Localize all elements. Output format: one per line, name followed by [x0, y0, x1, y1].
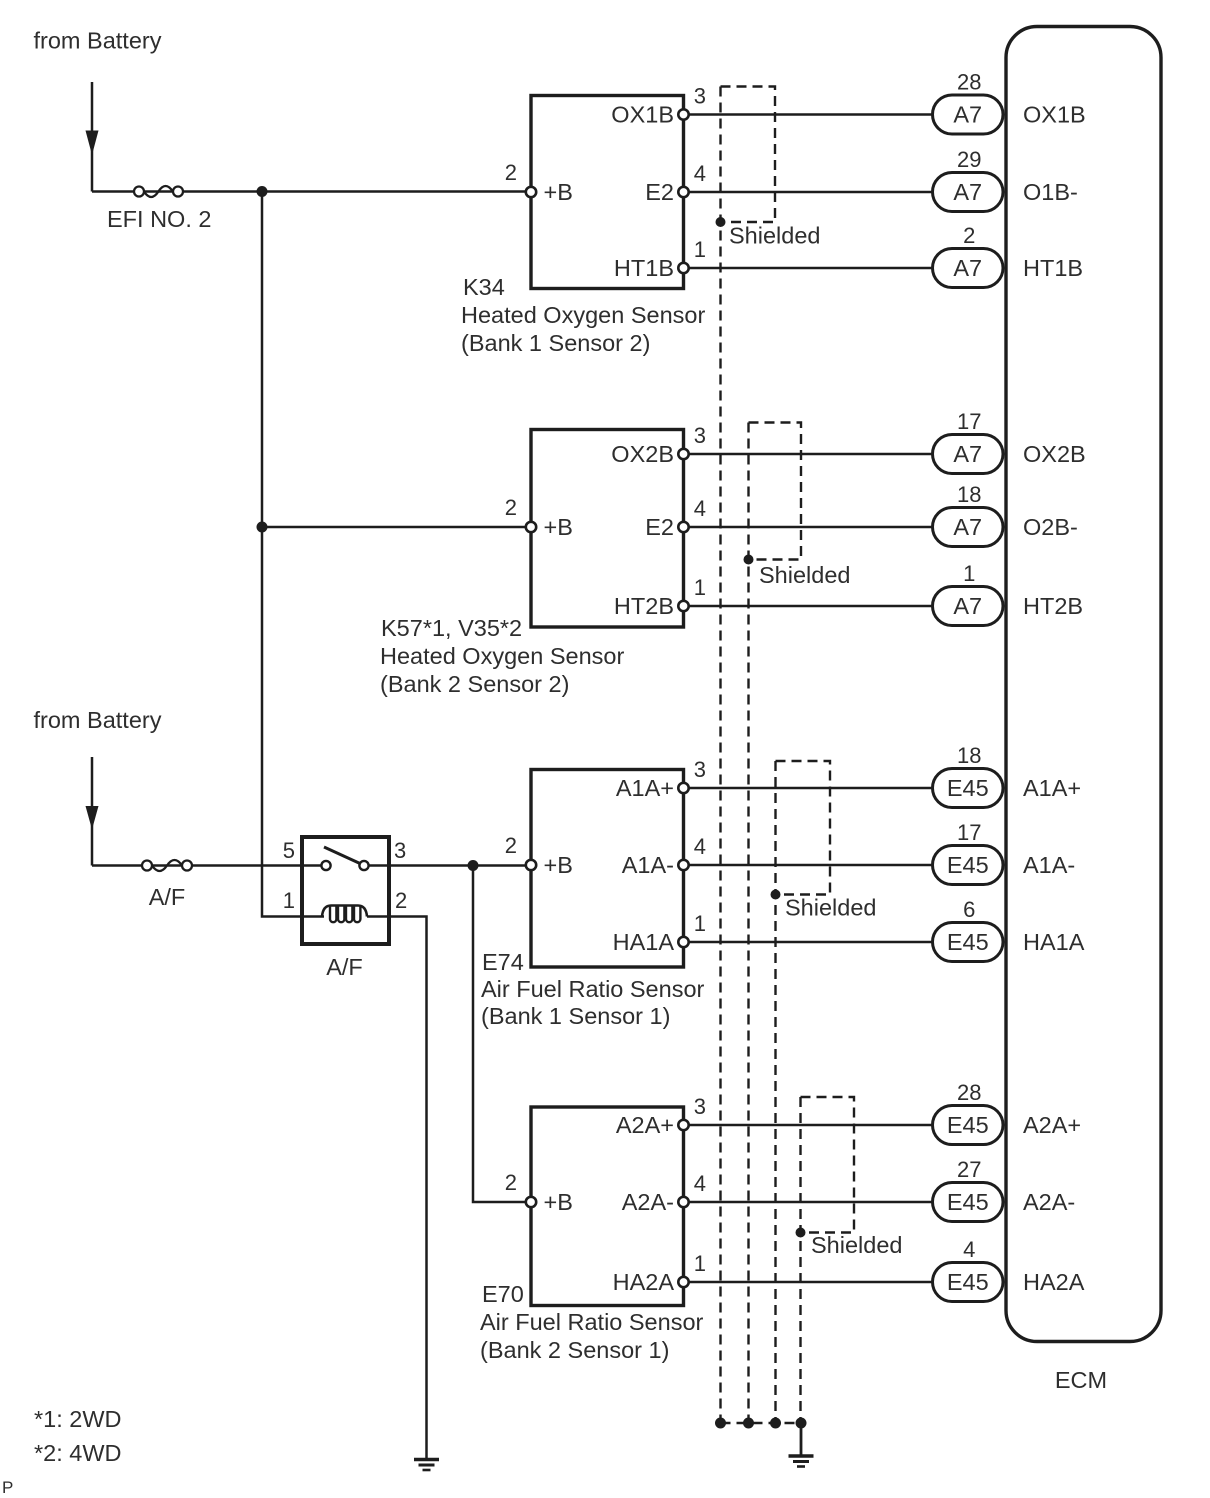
svg-text:A1A+: A1A+ — [1023, 775, 1081, 801]
svg-text:HA1A: HA1A — [613, 929, 675, 955]
svg-text:1: 1 — [694, 575, 706, 600]
relay switch blade — [324, 847, 360, 864]
wire: K57/V35 pin OX2B to ECM A7 — [684, 453, 939, 456]
svg-text:4: 4 — [694, 161, 706, 186]
svg-text:A1A-: A1A- — [622, 852, 674, 878]
svg-text:(Bank 1 Sensor 1): (Bank 1 Sensor 1) — [481, 1003, 670, 1029]
wire: battery feed 1 vertical drop — [91, 82, 94, 192]
svg-text:*1: 2WD: *1: 2WD — [34, 1406, 122, 1432]
svg-text:A2A+: A2A+ — [1023, 1112, 1081, 1138]
pin 3 (A1A+) of E74 — [678, 783, 688, 793]
svg-text:A1A+: A1A+ — [616, 775, 674, 801]
pin 1 (HA2A) of E70 — [678, 1277, 688, 1287]
shield box around K34 signal wires — [721, 87, 776, 223]
arrow: battery feed 2 direction — [86, 806, 99, 830]
connector A7 pin 28 oval (OX1B) — [933, 95, 1004, 134]
svg-text:A7: A7 — [953, 593, 982, 619]
wire: +B bus vertical (to K57 +B and relay coil pin 1) — [262, 192, 302, 917]
wire: K34 pin E2 to ECM A7 — [684, 191, 939, 194]
connector E45 pin 17 oval (A1A-) — [933, 846, 1004, 885]
pin 4 (A2A-) of E70 — [678, 1197, 688, 1207]
wire: bus to +B pin 2 of K57/V35 — [262, 526, 531, 529]
svg-text:2: 2 — [963, 223, 975, 248]
ECM module outline — [1006, 27, 1161, 1342]
svg-text:A2A+: A2A+ — [616, 1112, 674, 1138]
svg-text:2: 2 — [395, 888, 407, 913]
junction: shield drain bus node — [715, 1418, 726, 1429]
svg-text:E45: E45 — [947, 775, 989, 801]
connector A7 pin 2 oval (HT1B) — [933, 249, 1004, 288]
wire: relay coil pin 2 to chassis ground — [389, 917, 427, 1460]
svg-text:4: 4 — [963, 1237, 975, 1262]
sensor K57/V35 box (heated oxygen sensor B2S2) — [531, 430, 684, 628]
pin 3 (A2A+) of E70 — [678, 1120, 688, 1130]
svg-text:E2: E2 — [645, 514, 674, 540]
svg-text:4: 4 — [694, 1171, 706, 1196]
connector A7 pin 18 oval (O2B-) — [933, 508, 1004, 547]
svg-text:Heated Oxygen Sensor: Heated Oxygen Sensor — [461, 302, 705, 328]
svg-text:A/F: A/F — [326, 954, 363, 980]
svg-text:Shielded: Shielded — [759, 562, 850, 588]
wire: battery 1 to fuse EFI NO.2 and on to +B pin 2 of K34 — [92, 190, 531, 193]
svg-text:HT2B: HT2B — [1023, 593, 1083, 619]
svg-text:28: 28 — [957, 70, 981, 95]
fuse EFI NO. 2 — [134, 186, 183, 197]
svg-text:A2A-: A2A- — [622, 1189, 674, 1215]
junction: shield drain bus node — [796, 1418, 807, 1429]
wire: E74 pin HA1A to ECM E45 — [684, 941, 939, 944]
svg-text:HA2A: HA2A — [1023, 1269, 1085, 1295]
wire: relay pin 3 to junction and +B pin 2 of E74 — [369, 864, 532, 867]
svg-text:(Bank 2 Sensor 1): (Bank 2 Sensor 1) — [480, 1337, 669, 1363]
svg-text:HT2B: HT2B — [614, 593, 674, 619]
svg-text:1: 1 — [694, 237, 706, 262]
wire: shield drain of K34 (dashed) — [719, 87, 721, 1424]
svg-text:OX2B: OX2B — [1023, 441, 1086, 467]
junction: shield of K34 to drain — [716, 217, 726, 227]
svg-text:Air Fuel Ratio Sensor: Air Fuel Ratio Sensor — [481, 976, 705, 1002]
svg-text:A/F: A/F — [149, 884, 186, 910]
svg-text:1: 1 — [694, 911, 706, 936]
svg-text:EFI NO. 2: EFI NO. 2 — [107, 206, 211, 232]
wire: shield drain of E70 (dashed) — [799, 1097, 801, 1423]
wire: K34 pin HT1B to ECM A7 — [684, 267, 939, 270]
wire: shield drain bus to ground — [800, 1423, 803, 1455]
svg-text:2: 2 — [505, 160, 517, 185]
pin 2 (+B) of E70 — [526, 1197, 536, 1207]
svg-text:OX1B: OX1B — [611, 102, 674, 128]
svg-text:E74: E74 — [482, 949, 524, 975]
pin 1 (HA1A) of E74 — [678, 937, 688, 947]
svg-text:Heated Oxygen Sensor: Heated Oxygen Sensor — [380, 643, 624, 669]
wire: E70 pin A2A+ to ECM E45 — [684, 1124, 939, 1127]
shield box around E70 signal wires — [801, 1097, 855, 1233]
svg-text:(Bank 2 Sensor 2): (Bank 2 Sensor 2) — [380, 671, 569, 697]
svg-text:Shielded: Shielded — [729, 223, 820, 249]
svg-text:A7: A7 — [953, 102, 982, 128]
svg-text:HT1B: HT1B — [1023, 255, 1083, 281]
junction: bus tap to K57 +B — [257, 522, 268, 533]
svg-text:Shielded: Shielded — [785, 895, 876, 921]
svg-text:E45: E45 — [947, 1189, 989, 1215]
wire: E74 pin A1A+ to ECM E45 — [684, 787, 939, 790]
relay contact circle pin 5 side — [321, 861, 330, 870]
svg-text:2: 2 — [505, 495, 517, 520]
svg-text:O1B-: O1B- — [1023, 179, 1078, 205]
pin 4 (E2) of K57/V35 — [678, 522, 688, 532]
svg-text:E45: E45 — [947, 1112, 989, 1138]
svg-text:A7: A7 — [953, 179, 982, 205]
junction: shield drain bus node — [770, 1418, 781, 1429]
svg-text:A7: A7 — [953, 441, 982, 467]
svg-text:HT1B: HT1B — [614, 255, 674, 281]
sensor E70 box (air fuel ratio sensor B2S1) — [531, 1107, 684, 1306]
svg-text:4: 4 — [694, 496, 706, 521]
wire: shield drain of E74 (dashed) — [774, 761, 776, 1423]
svg-text:from Battery: from Battery — [34, 707, 162, 733]
svg-text:OX1B: OX1B — [1023, 102, 1086, 128]
svg-text:A2A-: A2A- — [1023, 1189, 1075, 1215]
connector E45 pin 28 oval (A2A+) — [933, 1106, 1004, 1145]
svg-text:3: 3 — [694, 1094, 706, 1119]
svg-text:2: 2 — [505, 833, 517, 858]
svg-text:*2: 4WD: *2: 4WD — [34, 1440, 122, 1466]
pin 1 (HT2B) of K57/V35 — [678, 601, 688, 611]
wire: shield drain bus (dashed) — [721, 1422, 802, 1424]
svg-text:27: 27 — [957, 1157, 981, 1182]
junction: +B branch to E70 — [468, 860, 479, 871]
connector E45 pin 27 oval (A2A-) — [933, 1183, 1004, 1222]
svg-text:Shielded: Shielded — [811, 1232, 902, 1258]
svg-text:E45: E45 — [947, 1269, 989, 1295]
svg-text:17: 17 — [957, 409, 981, 434]
connector A7 pin 17 oval (OX2B) — [933, 435, 1004, 474]
svg-text:18: 18 — [957, 482, 981, 507]
junction: shield of K57/V35 to drain — [744, 555, 754, 565]
svg-text:A7: A7 — [953, 255, 982, 281]
svg-text:5: 5 — [283, 838, 295, 863]
svg-text:+B: +B — [544, 514, 573, 540]
svg-text:P: P — [2, 1478, 13, 1497]
connector A7 pin 1 oval (HT2B) — [933, 587, 1004, 626]
svg-text:K34: K34 — [463, 274, 505, 300]
svg-text:29: 29 — [957, 147, 981, 172]
svg-text:OX2B: OX2B — [611, 441, 674, 467]
svg-text:A7: A7 — [953, 514, 982, 540]
svg-text:3: 3 — [694, 757, 706, 782]
wire: battery 2 to fuse A/F and relay contact pin 5 — [92, 864, 326, 867]
svg-text:1: 1 — [963, 561, 975, 586]
sensor K34 box (K34 heated oxygen sensor B1S2) — [531, 96, 684, 289]
relay contact circle pin 3 side — [359, 861, 368, 870]
svg-text:from Battery: from Battery — [34, 28, 162, 54]
svg-text:18: 18 — [957, 743, 981, 768]
sensor E74 box (air fuel ratio sensor B1S1) — [531, 770, 684, 968]
arrow: battery feed 1 direction — [86, 131, 99, 156]
wire: K57/V35 pin E2 to ECM A7 — [684, 526, 939, 529]
svg-text:E45: E45 — [947, 852, 989, 878]
connector E45 pin 18 oval (A1A+) — [933, 769, 1004, 808]
svg-text:6: 6 — [963, 897, 975, 922]
wire: E74 pin A1A- to ECM E45 — [684, 864, 939, 867]
ground: shield drain ground symbol — [789, 1456, 814, 1467]
svg-text:1: 1 — [694, 1251, 706, 1276]
relay A/F box — [302, 837, 389, 944]
svg-text:E2: E2 — [645, 179, 674, 205]
svg-text:E45: E45 — [947, 929, 989, 955]
wire: E70 pin HA2A to ECM E45 — [684, 1281, 939, 1284]
wire: K57/V35 pin HT2B to ECM A7 — [684, 605, 939, 608]
wire: shield drain of K57/V35 (dashed) — [747, 423, 749, 1424]
connector A7 pin 29 oval (O1B-) — [933, 173, 1004, 212]
shield box around K57/V35 signal wires — [749, 423, 802, 560]
svg-text:(Bank 1 Sensor 2): (Bank 1 Sensor 2) — [461, 330, 650, 356]
pin 4 (E2) of K34 — [678, 187, 688, 197]
svg-text:O2B-: O2B- — [1023, 514, 1078, 540]
svg-text:HA2A: HA2A — [613, 1269, 675, 1295]
svg-text:28: 28 — [957, 1080, 981, 1105]
svg-text:K57*1, V35*2: K57*1, V35*2 — [381, 615, 522, 641]
wire: K34 pin OX1B to ECM A7 — [684, 113, 939, 116]
svg-text:4: 4 — [694, 834, 706, 859]
svg-text:1: 1 — [283, 888, 295, 913]
svg-text:+B: +B — [544, 852, 573, 878]
connector E45 pin 6 oval (HA1A) — [933, 923, 1004, 962]
pin 3 (OX1B) of K34 — [678, 109, 688, 119]
svg-text:HA1A: HA1A — [1023, 929, 1085, 955]
ground: relay coil ground symbol — [414, 1460, 439, 1471]
svg-text:Air Fuel Ratio Sensor: Air Fuel Ratio Sensor — [480, 1309, 704, 1335]
pin 2 (+B) of K34 — [526, 187, 536, 197]
svg-text:2: 2 — [505, 1170, 517, 1195]
svg-text:3: 3 — [394, 838, 406, 863]
pin 1 (HT1B) of K34 — [678, 263, 688, 273]
pin 2 (+B) of E74 — [526, 860, 536, 870]
fuse A/F — [142, 860, 192, 871]
wire: battery feed 2 vertical drop — [91, 757, 94, 866]
junction: shield of E70 to drain — [796, 1228, 806, 1238]
wire: E70 pin A2A- to ECM E45 — [684, 1201, 939, 1204]
pin 4 (A1A-) of E74 — [678, 860, 688, 870]
svg-text:ECM: ECM — [1055, 1367, 1107, 1393]
svg-text:E70: E70 — [482, 1281, 524, 1307]
svg-text:3: 3 — [694, 423, 706, 448]
svg-text:A1A-: A1A- — [1023, 852, 1075, 878]
svg-text:17: 17 — [957, 820, 981, 845]
svg-text:+B: +B — [544, 179, 573, 205]
connector E45 pin 4 oval (HA2A) — [933, 1263, 1004, 1302]
relay coil L1 — [302, 906, 389, 923]
wire: +B branch down to E70 pin 2 — [473, 866, 531, 1203]
junction: shield of E74 to drain — [771, 890, 781, 900]
junction: +B bus tap at fuse output — [257, 186, 268, 197]
pin 3 (OX2B) of K57/V35 — [678, 449, 688, 459]
pin 2 (+B) of K57/V35 — [526, 522, 536, 532]
svg-text:3: 3 — [694, 84, 706, 109]
shield box around E74 signal wires — [776, 761, 831, 895]
junction: shield drain bus node — [743, 1418, 754, 1429]
svg-text:+B: +B — [544, 1189, 573, 1215]
